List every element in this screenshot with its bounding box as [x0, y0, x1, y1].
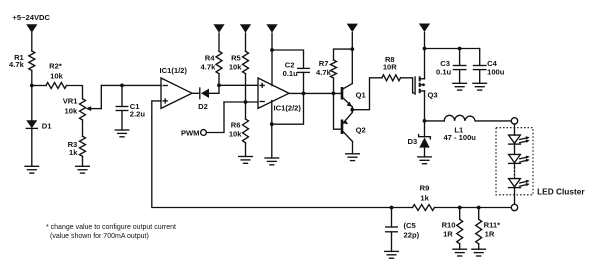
node	[217, 83, 221, 87]
svg-text:10k: 10k	[229, 129, 242, 138]
wire	[333, 78, 335, 93]
svg-text:LED Cluster: LED Cluster	[537, 187, 585, 197]
svg-text:10k: 10k	[50, 72, 63, 81]
node	[477, 206, 481, 210]
wire	[82, 120, 84, 136]
wire	[245, 74, 247, 102]
wire IC1(2/2) - input	[224, 101, 258, 103]
wire	[31, 86, 33, 121]
ground	[239, 157, 253, 164]
wire to IC1(2/2) + input	[219, 84, 258, 86]
wire	[334, 49, 353, 60]
ground	[346, 154, 360, 161]
node	[350, 108, 354, 112]
wire	[352, 142, 354, 154]
wire	[272, 50, 304, 68]
ground	[25, 166, 39, 173]
wire	[334, 93, 343, 129]
dotted continuation	[514, 168, 516, 178]
svg-text:10R: 10R	[383, 63, 397, 72]
svg-text:4.7k: 4.7k	[316, 68, 332, 77]
terminal LED-	[511, 204, 517, 210]
svg-text:R9: R9	[420, 184, 430, 193]
svg-text:100u: 100u	[487, 67, 505, 76]
svg-text:* change value to configure ou: * change value to configure output curre…	[46, 224, 176, 231]
ground	[265, 158, 279, 165]
svg-text:D3: D3	[408, 137, 418, 146]
resistor R6	[245, 102, 247, 119]
LED 3	[509, 179, 521, 187]
svg-text:R4: R4	[205, 54, 215, 63]
terminal PWM	[201, 130, 207, 136]
svg-text:4.7k: 4.7k	[9, 60, 25, 69]
node	[458, 206, 462, 210]
svg-text:10k: 10k	[229, 62, 242, 71]
svg-text:D2: D2	[198, 102, 208, 111]
svg-text:R11*: R11*	[484, 220, 501, 229]
LED 1	[509, 135, 521, 143]
wire	[514, 163, 516, 167]
node	[350, 47, 354, 51]
svg-text:VR1: VR1	[63, 96, 79, 105]
wire	[424, 49, 426, 79]
wire	[206, 102, 224, 133]
wire	[425, 48, 480, 50]
power terminal +5~24VDC	[26, 24, 37, 33]
node	[270, 122, 274, 126]
wire	[271, 124, 273, 158]
ground	[453, 83, 467, 90]
resistor R7	[331, 60, 337, 78]
op-amp IC1(1/2)	[161, 78, 192, 108]
node	[270, 48, 274, 52]
diode D1	[26, 120, 37, 128]
wire	[100, 85, 102, 108]
resistor R4	[216, 51, 222, 74]
svg-text:10k: 10k	[65, 106, 78, 115]
power arrow	[213, 24, 224, 33]
wire	[289, 92, 342, 94]
power arrow	[240, 24, 251, 33]
terminal LED+	[511, 118, 517, 124]
capacitor (C5)	[391, 208, 393, 227]
wire	[425, 120, 445, 122]
wire	[67, 86, 83, 99]
svg-text:4.7k: 4.7k	[201, 62, 217, 71]
op-amp IC1(2/2)	[258, 78, 289, 108]
transistor Q1	[341, 87, 344, 100]
wire	[32, 85, 46, 87]
node R1-D1-R2	[30, 84, 34, 88]
wire	[351, 49, 353, 83]
ground	[115, 130, 129, 137]
wire	[424, 91, 426, 121]
ground	[453, 249, 467, 256]
node	[302, 92, 306, 96]
node	[332, 92, 336, 96]
transistor Q3	[414, 77, 416, 94]
wire	[31, 71, 33, 86]
wire	[272, 73, 304, 125]
svg-text:1k: 1k	[69, 148, 78, 157]
wire	[218, 33, 220, 51]
svg-text:R5: R5	[231, 54, 241, 63]
ground	[385, 251, 399, 258]
wire	[424, 33, 426, 49]
inductor L1	[444, 115, 475, 121]
wire	[351, 33, 353, 50]
svg-text:R6: R6	[231, 121, 241, 130]
capacitor C1	[121, 85, 123, 106]
wire	[271, 50, 273, 86]
wire	[101, 84, 161, 86]
svg-text:+5~24VDC: +5~24VDC	[12, 13, 50, 22]
svg-text:IC1(2/2): IC1(2/2)	[274, 103, 302, 112]
resistor R9	[413, 205, 435, 211]
svg-text:0.1u: 0.1u	[436, 67, 452, 76]
node C5 tap	[390, 206, 394, 210]
ground	[418, 157, 432, 164]
wire	[31, 33, 33, 51]
svg-text:47 - 100u: 47 - 100u	[443, 133, 476, 142]
capacitor C3	[459, 49, 461, 66]
svg-text:Q3: Q3	[428, 90, 438, 99]
node switch	[423, 119, 427, 123]
wire	[31, 128, 33, 166]
resistor R2*	[46, 83, 67, 89]
wire	[352, 78, 382, 110]
wire	[271, 33, 273, 50]
svg-text:22p): 22p)	[404, 231, 420, 240]
wire	[514, 144, 516, 154]
wire	[245, 33, 247, 51]
wire	[514, 188, 516, 205]
wire	[218, 74, 220, 86]
wire	[209, 85, 219, 93]
wire	[514, 124, 516, 135]
resistor R8	[382, 75, 401, 81]
resistor R10	[459, 208, 461, 220]
LED 2	[509, 154, 521, 162]
node C1 tap	[120, 84, 124, 88]
svg-text:Q2: Q2	[356, 126, 366, 135]
wire	[351, 107, 353, 110]
ground	[472, 249, 486, 256]
svg-text:IC1(1/2): IC1(1/2)	[160, 66, 188, 75]
resistor R11*	[478, 208, 480, 220]
power arrow	[347, 24, 358, 32]
wire	[152, 101, 392, 208]
resistor R1	[29, 51, 35, 71]
node	[458, 47, 462, 51]
svg-text:R10: R10	[442, 221, 456, 230]
wire	[401, 78, 415, 93]
resistor R5	[243, 51, 249, 74]
wire	[192, 92, 200, 94]
svg-text:2.2u: 2.2u	[130, 109, 146, 118]
schottky diode D3	[424, 121, 426, 136]
svg-text:Q1: Q1	[356, 91, 367, 100]
svg-text:1R: 1R	[485, 229, 495, 238]
wire	[392, 207, 413, 209]
svg-text:1k: 1k	[420, 193, 429, 202]
LED cluster box	[496, 128, 533, 195]
node	[244, 100, 248, 104]
diode D2	[199, 88, 201, 99]
wire	[435, 207, 512, 209]
svg-text:1R: 1R	[443, 229, 453, 238]
svg-text:PWM: PWM	[181, 128, 200, 137]
svg-text:(value shown for 700mA output): (value shown for 700mA output)	[50, 233, 149, 240]
potentiometer VR1	[80, 99, 86, 120]
svg-text:R2*: R2*	[49, 62, 62, 71]
ground	[76, 166, 90, 173]
svg-text:0.1u: 0.1u	[283, 69, 299, 78]
node	[423, 47, 427, 51]
svg-text:(C5: (C5	[404, 221, 417, 230]
ground	[473, 83, 487, 90]
power arrow	[419, 24, 430, 33]
resistor R3	[80, 136, 86, 156]
capacitor C2	[298, 68, 310, 72]
wire	[271, 101, 273, 125]
wire	[475, 120, 511, 122]
wire	[351, 110, 353, 113]
power arrow	[266, 24, 277, 33]
wire	[82, 156, 84, 166]
transistor Q2	[341, 120, 344, 135]
svg-text:R7: R7	[319, 59, 329, 68]
capacitor C4	[479, 49, 481, 66]
svg-text:D1: D1	[42, 122, 52, 131]
